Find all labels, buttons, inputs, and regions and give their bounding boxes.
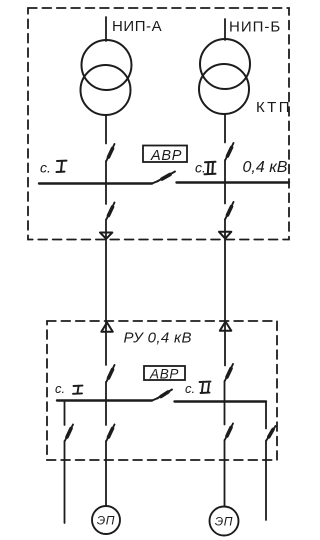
wire: feeder 1 drop from lower bus I <box>64 401 66 426</box>
bus section c.I (lower) <box>57 399 152 401</box>
wire: feeder 1 outgoing <box>64 441 66 523</box>
svg-text:ЭП: ЭП <box>215 515 233 529</box>
svg-text:НИП-Б: НИП-Б <box>229 19 281 36</box>
wire: incoming lead NIP-A <box>105 17 107 41</box>
wire: T1 secondary to switch <box>105 115 107 144</box>
wire: cable run left (to RU box) <box>105 220 107 366</box>
cable entry plug left (triangle up) <box>101 323 113 332</box>
wire: cable run right (to RU box) <box>224 219 226 366</box>
bus tie switch (upper) <box>152 172 175 184</box>
wire: incoming lead NIP-B <box>224 19 226 40</box>
load EP2 <box>210 507 239 536</box>
wire: bus II down to feeder switch <box>224 183 226 204</box>
svg-text:0,4 кВ: 0,4 кВ <box>243 159 288 176</box>
bus section c.I (upper) <box>39 182 152 184</box>
wire: switch to lower bus II <box>224 381 226 425</box>
switch QF6 (incomer to lower bus II) <box>225 364 233 381</box>
switch QF3 (feeder from bus I) <box>106 203 114 220</box>
transformer T2 <box>199 39 250 114</box>
svg-text:НИП-А: НИП-А <box>112 18 162 35</box>
bus section c.II (lower) <box>175 400 267 402</box>
svg-text:АВР: АВР <box>150 148 182 164</box>
load EP1 <box>92 506 120 534</box>
ABP device box (upper) <box>143 146 187 164</box>
wire: feeder 3 to load <box>224 440 226 507</box>
switch QF4 (feeder from bus II) <box>225 202 233 219</box>
wire: switch to bus section II <box>224 160 226 183</box>
ABP device box (lower) <box>144 366 185 382</box>
node label c.II lower <box>185 381 211 396</box>
svg-text:АВР: АВР <box>149 367 179 382</box>
enclosure RU 0,4 kV dashed box <box>47 321 277 460</box>
wire: feeder 4 outgoing <box>265 441 267 521</box>
transformer T1 <box>81 40 132 115</box>
wire: switch to lower bus I <box>105 382 107 425</box>
switch feeder 1 <box>65 425 73 442</box>
cable entry plug right (triangle up) <box>220 322 232 331</box>
wire: switch to bus section I <box>105 161 107 184</box>
svg-text:с.: с. <box>55 381 65 396</box>
switch feeder 3 <box>225 424 233 441</box>
cable exit arrow right (triangle down) <box>219 232 231 239</box>
wire: feeder 4 drop from lower bus II <box>265 402 267 429</box>
switch feeder 4 <box>266 426 275 441</box>
svg-text:с.: с. <box>185 381 195 396</box>
switch feeder 2 <box>106 425 114 442</box>
bus section c.II (upper) <box>177 181 290 183</box>
wire: feeder 2 to load <box>105 441 107 506</box>
wire: bus I down to feeder switch <box>105 184 107 205</box>
svg-text:РУ 0,4 кВ: РУ 0,4 кВ <box>124 330 192 347</box>
enclosure KTP dashed box <box>28 8 289 240</box>
node label c.I upper <box>40 159 67 175</box>
svg-text:КТП: КТП <box>256 99 292 116</box>
switch QF2 (T2 incomer) <box>225 143 233 160</box>
switch QF5 (incomer to lower bus I) <box>106 365 114 382</box>
wire: T2 secondary to switch <box>224 114 226 143</box>
cable exit arrow left (triangle down) <box>100 233 112 239</box>
bus tie switch (lower) <box>152 390 172 401</box>
node label c.II upper <box>195 159 216 175</box>
svg-text:ЭП: ЭП <box>97 514 115 528</box>
switch QF1 (T1 incomer) <box>106 144 114 161</box>
node label c.I lower <box>55 381 83 396</box>
svg-text:с.: с. <box>40 159 51 175</box>
